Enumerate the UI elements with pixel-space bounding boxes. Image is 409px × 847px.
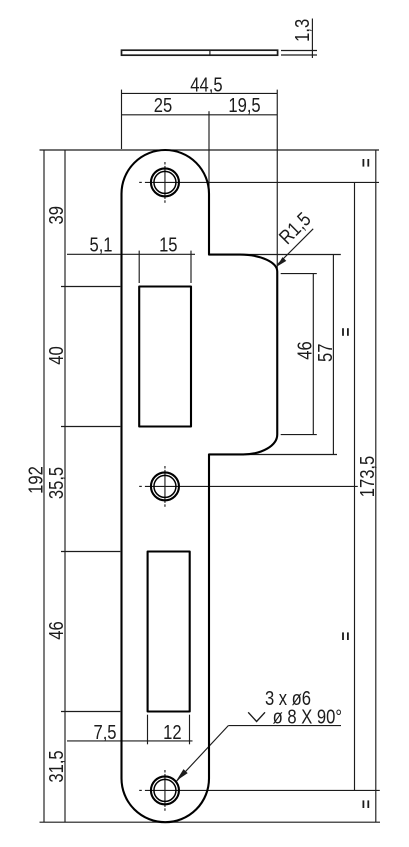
extension line 57 top [242,254,341,256]
dimension line 1,3 [311,19,313,59]
extension line 25/19,5 divider [208,111,210,192]
extension line rect2 right [189,715,191,745]
centerline top hole vertical [164,162,166,165]
hole top inner [154,171,176,193]
top extension line (y=150 full) [40,149,380,151]
side view plate body (top thin bar) [122,50,278,55]
rectangular cutout 1 [139,287,191,427]
svg-text:44,5: 44,5 [190,73,222,96]
centerline bottom hole horizontal [139,789,142,791]
svg-text:46: 46 [45,621,68,639]
dimension line 5,1 / 15 [67,253,195,255]
svg-text:1,3: 1,3 [290,19,313,42]
chain dimension line (39/40/35,5/46/31,5) [64,150,66,822]
extension line rect1 right [190,251,192,283]
extension line rect1 left [138,251,140,283]
extension line rect2 left [147,715,149,745]
dimension line 46 (lip straight edge) [312,274,314,435]
svg-text:12: 12 [163,721,181,744]
dimension line 192 (far left) [43,150,45,822]
extension line right width (to lip corner) [276,90,278,269]
dimension line 57 (lip total) [332,255,334,455]
bottom extension line (y=822 full) [40,821,381,823]
chain extension line at 286.5 [61,286,120,288]
centerline middle hole horizontal [139,485,142,487]
arrowhead hole callout [176,769,188,781]
extension lines for 1,3 thickness [281,50,317,52]
arrowhead R1,5 [277,257,287,267]
hole middle outer [151,472,179,500]
hole middle inner [154,475,176,497]
dimension line equal-ends (right, line B) [375,150,377,822]
dimension line 25 / 19,5 [122,114,278,116]
chain extension line at 426.5 [61,426,120,428]
extension line 57 bottom [245,454,337,456]
svg-text:5,1: 5,1 [89,233,112,256]
svg-text:15: 15 [159,233,177,256]
leader line R1,5 [277,229,313,265]
hole bottom inner [154,779,176,801]
centerline top hole horizontal [139,181,142,183]
svg-text:57: 57 [313,344,336,362]
svg-text:40: 40 [45,346,68,364]
equality mark E1 [363,159,370,167]
side view lip bend line [209,50,211,55]
extension line 46 top [281,273,317,275]
svg-text:19,5: 19,5 [228,93,260,116]
svg-text:ø 8 X 90°: ø 8 X 90° [273,705,342,728]
leader line hole callout horizontal [228,725,341,727]
svg-text:35,5: 35,5 [45,467,68,499]
equality mark E3 [342,632,349,640]
centerline middle hole vertical [164,466,166,469]
equality mark E4 [363,800,370,808]
centerline bottom hole vertical [164,770,166,773]
extension line 46 bottom [281,434,317,436]
equality mark E2 [342,328,349,336]
svg-text:173,5: 173,5 [356,456,379,498]
extension line left width [121,90,123,149]
svg-text:192: 192 [24,466,47,494]
hole bottom outer [151,776,179,804]
dimension line 44,5 [122,92,278,94]
rectangular cutout 2 [148,552,190,712]
plate outline (front view) [122,150,278,822]
dimension line 173,5 (right, line A) [354,182,356,790]
hole top outer [151,168,179,196]
dimension line 7,5 / 12 [67,740,193,742]
chain extension line at 711.5 [61,711,120,713]
svg-text:7,5: 7,5 [93,721,116,744]
leader line hole callout diagonal [177,726,229,782]
countersink symbol [248,712,265,721]
svg-text:39: 39 [45,206,68,224]
svg-text:25: 25 [154,93,172,116]
chain extension line at 551.5 [61,551,120,553]
svg-text:31,5: 31,5 [45,750,68,782]
